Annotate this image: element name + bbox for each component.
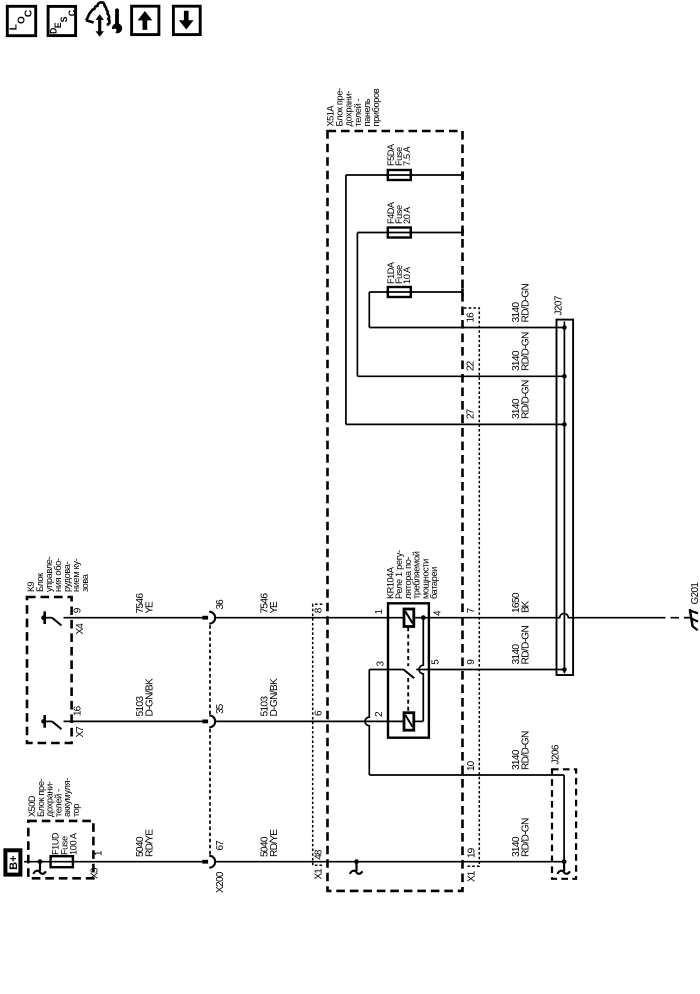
svg-text:9: 9: [73, 607, 84, 613]
svg-text:приборов: приборов: [371, 88, 381, 126]
svg-text:RD/D-GN: RD/D-GN: [520, 818, 531, 857]
splice inside X51A on battery row: [354, 859, 359, 864]
wire: fuse F4DA left to drop: [357, 232, 387, 234]
svg-text:RD/D-GN: RD/D-GN: [520, 625, 531, 664]
svg-text:7.5 A: 7.5 A: [402, 146, 412, 166]
connector X1 right bracket (pins 16,22,27,7,9,10,19): [464, 308, 479, 866]
svg-text:RD/D-GN: RD/D-GN: [520, 332, 531, 371]
wire: fuse F5DA left to drop: [346, 174, 388, 176]
svg-text:X1: X1: [314, 868, 325, 880]
wire 5103 D-GN/BK row: X200:35 via X1:6 to relay pin2 coil2: [216, 720, 404, 722]
wire 3140 RD/D-GN row22: via X1:22 to J207: [357, 375, 564, 377]
svg-text:батареи: батареи: [429, 567, 439, 599]
svg-text:YE: YE: [144, 601, 155, 614]
toolbar icon scroll-up button: [132, 6, 159, 34]
svg-text:67: 67: [215, 840, 226, 851]
relay KR104A box: [388, 603, 429, 737]
svg-text:8: 8: [314, 607, 325, 613]
module K9 body control module dashed box: [27, 597, 72, 743]
terminal tick F5DA feed at border: [461, 171, 464, 178]
svg-text:D-GN/BK: D-GN/BK: [269, 678, 280, 717]
connector X200 terminal pair row 67: [202, 860, 208, 864]
svg-text:2: 2: [374, 711, 385, 717]
svg-text:C: C: [24, 10, 35, 17]
svg-text:6: 6: [314, 710, 325, 716]
wire: F1DA drop down to row16: [368, 292, 370, 328]
svg-text:7: 7: [466, 607, 477, 613]
svg-text:1: 1: [94, 850, 105, 856]
svg-text:X3: X3: [90, 867, 101, 879]
connector X200 terminal pair row 36: [202, 616, 208, 620]
terminal tick F4DA feed at border: [461, 229, 464, 236]
junction dot J207 row9: [562, 667, 567, 672]
wire: coil2 right terminal to internal link: [414, 720, 424, 722]
module X50D battery fuse block dashed box: [28, 821, 93, 878]
svg-text:19: 19: [467, 847, 478, 858]
svg-text:X7: X7: [75, 726, 86, 738]
relay internal link pin4-junction down to coil2 (hops row 5): [419, 618, 423, 722]
svg-text:RD/D-GN: RD/D-GN: [520, 283, 531, 322]
svg-text:BK: BK: [520, 600, 531, 613]
wire 1650 BK: J207 to dashed break: [573, 617, 657, 619]
junction dot relay pin4 node: [421, 615, 426, 620]
svg-text:X1: X1: [467, 870, 478, 882]
wire: relay pin3 to down-drop: [369, 669, 403, 671]
svg-text:36: 36: [215, 599, 226, 610]
wire 3140 RD/D-GN row27: via X1:27 to J207: [346, 423, 565, 425]
fuse F5DA symbol: [388, 170, 411, 180]
splice J206 dashed box: [552, 769, 576, 879]
wire 7546 YE row: X200:36 to relay coil, pin X1:8: [216, 617, 404, 619]
junction dot J207 row22: [562, 374, 567, 379]
toolbar icon scroll-down button: [173, 6, 200, 34]
wire 1650 BK dashed continuation to G201: [657, 617, 685, 619]
wire 3140 RD/D-GN row16: via X1:16 to J207: [369, 327, 564, 329]
junction dot J207 row27: [562, 422, 567, 427]
svg-text:22: 22: [466, 360, 477, 371]
splice at battery feed (inside X50D): [38, 859, 43, 864]
wire: fuse F4DA right to X51A border tick: [411, 232, 463, 234]
svg-text:тор: тор: [71, 804, 81, 817]
K9 internal contact at X7:16: [43, 715, 46, 728]
svg-text:YE: YE: [269, 601, 280, 614]
svg-text:10: 10: [466, 760, 477, 771]
svg-text:G201: G201: [690, 582, 700, 605]
svg-text:1: 1: [374, 609, 385, 615]
svg-text:RD/D-GN: RD/D-GN: [520, 380, 531, 419]
svg-text:20 A: 20 A: [402, 206, 412, 224]
splice bar J207: [557, 320, 574, 675]
fuse F1DA symbol: [388, 287, 411, 297]
svg-text:J207: J207: [554, 295, 565, 315]
toolbar icon DESC button: [48, 6, 77, 35]
wire 5040 RD/YE row: F1UD via X3:1 to X200:67: [73, 861, 202, 863]
relay coil 1 (pins 1-4): [404, 609, 414, 627]
svg-text:C: C: [67, 9, 77, 16]
svg-text:5: 5: [431, 659, 442, 665]
svg-text:10 A: 10 A: [402, 266, 412, 284]
svg-text:27: 27: [466, 408, 477, 419]
wire: J206 vertical down to splice: [563, 775, 565, 862]
relay switch blade (pin3): [404, 670, 415, 679]
wire: fuse F1DA right to X51A border tick: [411, 291, 463, 293]
wire 5040 RD/YE row: B+ to fuse F1UD: [24, 861, 51, 863]
wire 5040 RD/YE row: X200:67 via X1:48 into X51A, to splice and on to J206: [216, 861, 564, 863]
svg-text:3: 3: [375, 661, 386, 667]
svg-text:35: 35: [215, 703, 226, 714]
K9 internal contact at X4:9: [43, 611, 46, 624]
svg-text:X4: X4: [75, 623, 86, 635]
connector X1 left bracket (pins 8,6,48): [313, 604, 323, 865]
module X51A instrument panel fuse block dashed box: [328, 131, 463, 891]
svg-text:RD/D-GN: RD/D-GN: [520, 731, 531, 770]
relay coil 2 (pin 2): [404, 713, 414, 731]
wire 1650 BK hop over J207 inner bar: [557, 613, 574, 617]
svg-text:16: 16: [73, 705, 84, 716]
wire: F5DA drop down to row27: [345, 175, 347, 424]
wire 5103 D-GN/BK row: K9 X7:16 to X200:35: [64, 720, 203, 722]
wire: fuse F5DA right to X51A border tick: [411, 174, 463, 176]
relay mechanical link (dashed): [407, 627, 409, 666]
svg-text:RD/YE: RD/YE: [269, 829, 280, 857]
connector X200 terminal pair row 35: [202, 720, 208, 724]
svg-text:16: 16: [466, 312, 477, 323]
svg-text:48: 48: [314, 849, 325, 860]
toolbar icon vehicle-service (car outline, double arrow, wrench): [86, 2, 122, 37]
fuse F4DA symbol: [388, 228, 411, 238]
junction dot J207 row16: [562, 325, 567, 330]
svg-text:B+: B+: [8, 855, 20, 869]
wire row 5/9: relay pin5 via X1:9 to J207: [416, 669, 564, 671]
svg-text:9: 9: [466, 659, 477, 665]
svg-text:100 A: 100 A: [69, 832, 79, 855]
svg-text:RD/YE: RD/YE: [144, 829, 155, 857]
svg-text:X200: X200: [215, 871, 226, 893]
svg-text:J206: J206: [551, 744, 562, 764]
wire: fuse F1DA left to drop: [369, 291, 388, 293]
splice J206: [562, 859, 567, 864]
battery positive terminal B+: [5, 850, 20, 874]
connector X200 dashed gang line: [209, 625, 211, 714]
wire: pin3 drop down to row10 (hops row2): [365, 670, 369, 776]
terminal tick F1DA feed at border: [461, 288, 464, 295]
svg-text:L: L: [9, 24, 20, 30]
svg-text:S: S: [59, 16, 69, 22]
fuse F1UD 100A symbol: [51, 856, 73, 867]
svg-text:4: 4: [432, 610, 443, 616]
toolbar icon LOC button: [7, 6, 35, 35]
svg-text:зова: зова: [80, 573, 90, 592]
wire 3140 RD/D-GN row10: relay pin3 circuit via X1:10 to J206: [369, 774, 564, 776]
svg-text:D-GN/BK: D-GN/BK: [144, 678, 155, 717]
wire: F4DA drop down to row22: [356, 233, 358, 377]
ground G201 symbol: [685, 617, 690, 619]
wire 7546 YE row: K9 X4:9 to X200:36: [64, 617, 203, 619]
wire 1650 BK row: coil out pin4 via X1:7 to J207 (hop): [414, 617, 557, 619]
